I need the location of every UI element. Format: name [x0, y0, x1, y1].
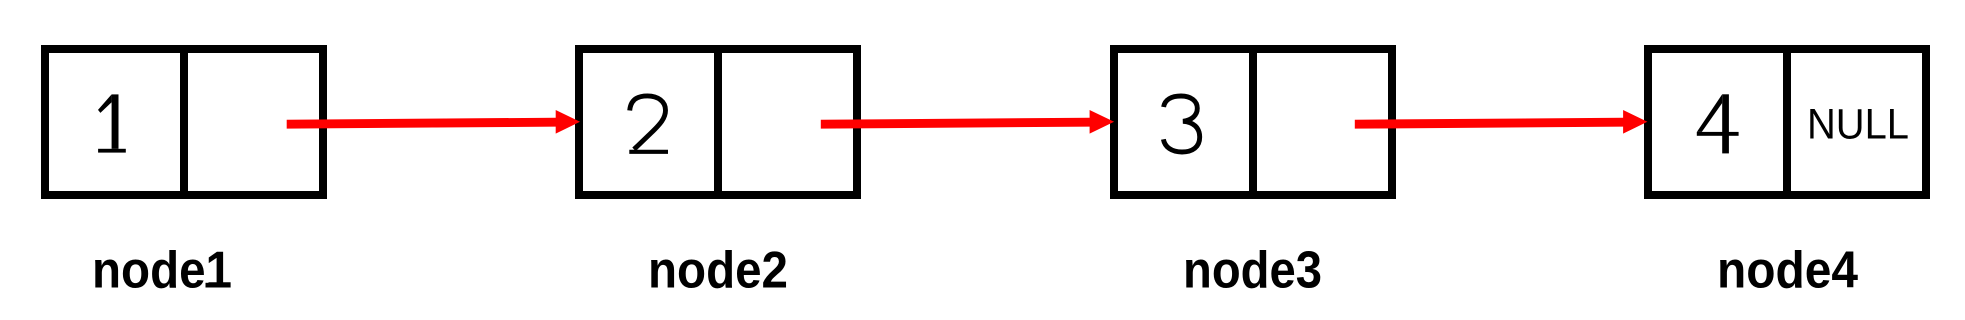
label node4 — [1717, 242, 1858, 300]
node2 box — [579, 49, 857, 195]
arrow node2 to node3 — [821, 110, 1114, 134]
node3 box — [1114, 49, 1392, 195]
node3 value "3" — [1163, 96, 1199, 152]
svg-text:node3: node3 — [1183, 242, 1322, 300]
arrow node1 to node2 — [287, 110, 580, 134]
node1 divider — [180, 45, 188, 199]
arrow node3 to node4 — [1355, 110, 1648, 134]
node3 divider — [1249, 45, 1257, 199]
label node3 — [1183, 242, 1322, 300]
node1 value "1" — [98, 94, 126, 152]
node2 divider — [714, 45, 722, 199]
node4 value "4" — [1697, 94, 1739, 153]
label node2 — [648, 242, 788, 300]
svg-text:node2: node2 — [648, 242, 788, 300]
node1 box — [45, 49, 323, 195]
svg-text:NULL: NULL — [1807, 101, 1909, 149]
svg-text:node1: node1 — [92, 242, 232, 300]
label node1 — [92, 242, 232, 300]
svg-text:node4: node4 — [1717, 242, 1858, 300]
node2 value "2" — [629, 96, 668, 152]
node4 NULL text — [1807, 101, 1909, 149]
node4 box — [1648, 49, 1926, 195]
node4 divider — [1783, 45, 1791, 199]
